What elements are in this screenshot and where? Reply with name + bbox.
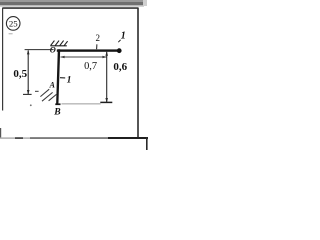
frame left lower stub: [0, 128, 1, 138]
frame bottom edge: [0, 137, 148, 139]
frame right edge: [137, 8, 139, 139]
label 1 at ball with leader: [118, 31, 125, 43]
svg-text:B: B: [53, 106, 61, 117]
rod 2 horizontal member: [57, 49, 120, 51]
svg-text:0,6: 0,6: [113, 61, 127, 73]
dimension 0,5 extension bottom: [23, 93, 32, 95]
foot at B: [55, 103, 60, 105]
svg-text:A: A: [48, 81, 55, 90]
svg-text:1: 1: [121, 31, 126, 42]
end ball on rod 2: [117, 48, 122, 53]
tick and label 1 on vertical rod: [60, 75, 71, 86]
extension line from B: [62, 103, 101, 105]
svg-text:2: 2: [95, 33, 100, 43]
speck near dimension base: [30, 104, 32, 106]
dimension 0,5 line: [27, 50, 30, 95]
svg-text:1: 1: [67, 75, 72, 86]
dimension 0,6 bottom cross tick: [100, 101, 112, 103]
label 2 with tick: [95, 33, 100, 49]
dimension 0,6 line: [105, 51, 108, 102]
rod 1 vertical member: [56, 49, 60, 105]
dimension 0,5 extension top: [25, 49, 54, 51]
frame left edge: [2, 8, 3, 111]
svg-text:0,5: 0,5: [13, 68, 27, 80]
wall hatching above pivot O: [50, 41, 67, 46]
dimension 0,7 line: [60, 56, 107, 59]
frame top edge: [3, 7, 138, 9]
small dash left of A hatching: [35, 91, 39, 92]
frame bottom-right stub: [146, 137, 148, 150]
svg-text:25: 25: [9, 19, 18, 29]
scan top shadow bar: [0, 0, 147, 7]
smudge under badge: [9, 33, 13, 34]
guide hatching at A: [40, 89, 56, 101]
problem number badge circle: [6, 17, 20, 31]
svg-text:0,7: 0,7: [84, 61, 97, 72]
